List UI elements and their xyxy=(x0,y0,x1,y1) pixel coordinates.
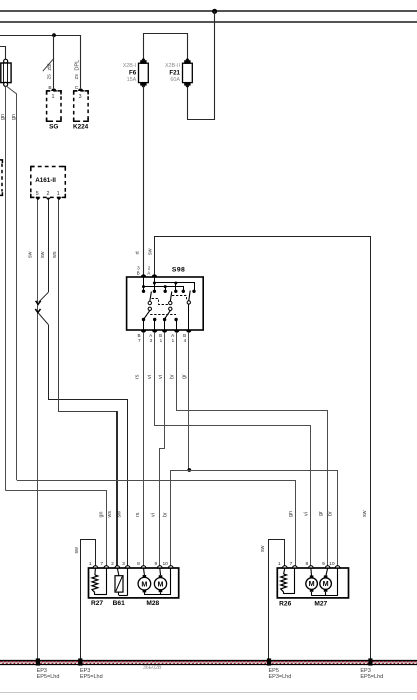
fuse F6 15A xyxy=(123,59,149,88)
svg-text:EP3=Lhd: EP3=Lhd xyxy=(269,674,292,680)
relay S98 box xyxy=(127,277,204,330)
svg-text:sw: sw xyxy=(40,251,46,258)
svg-text:sw: sw xyxy=(74,547,80,554)
svg-text:gn: gn xyxy=(288,511,294,517)
wire gn (left) down to long horizontal xyxy=(5,86,7,490)
svg-text:10: 10 xyxy=(162,561,168,567)
svg-text:vi: vi xyxy=(158,375,164,379)
S98 bottom pin label B/4 xyxy=(183,333,187,343)
label EP3 EP5=Lhd xyxy=(360,668,383,680)
wire sw from R26 pin 1 to ground rail xyxy=(269,540,285,661)
svg-text:rs: rs xyxy=(135,512,141,517)
pin numbers R27/B61/M28 box xyxy=(89,561,168,567)
svg-text:M27: M27 xyxy=(314,601,327,608)
svg-text:br: br xyxy=(170,374,176,379)
svg-text:15A: 15A xyxy=(127,77,137,83)
wire sw from relay S98 pin 2/A up and right to ground rail xyxy=(155,237,371,661)
svg-text:1: 1 xyxy=(278,561,281,567)
S98 fixed contacts (top row) xyxy=(142,290,196,293)
A161-II pin 1 terminal xyxy=(56,198,61,201)
svg-text:B: B xyxy=(48,85,51,91)
svg-text:4: 4 xyxy=(184,338,187,343)
ground connection EP3/EP5 (R27) xyxy=(78,658,82,665)
wire br from S98 A1 to R26 pin 9 xyxy=(177,333,328,566)
sensor B61 xyxy=(115,568,128,596)
svg-text:ws: ws xyxy=(107,511,113,518)
svg-text:gn: gn xyxy=(11,114,17,120)
control unit A161-II (dashed box) xyxy=(31,167,66,198)
A161-II pin 5 terminal xyxy=(35,198,40,201)
ground connection EP3/EP5 (S98) xyxy=(368,658,372,665)
junction node on br wire xyxy=(187,468,191,472)
wire gn (left) to R27 pin 7 xyxy=(6,491,107,567)
A161-II pin 2 terminal xyxy=(46,198,51,201)
S98 bottom pin label B/1 xyxy=(159,333,163,343)
S98 mechanical linkage (dashed) xyxy=(150,296,186,315)
S98 switch arm 3 xyxy=(187,291,190,330)
svg-text:F6: F6 xyxy=(129,69,137,76)
svg-text:1: 1 xyxy=(89,561,92,567)
S98 switch arm 2 xyxy=(165,292,172,319)
svg-text:K224: K224 xyxy=(73,124,89,131)
svg-text:EP5=Lhd: EP5=Lhd xyxy=(80,674,103,680)
junction node on that wire xyxy=(52,33,56,37)
svg-text:9: 9 xyxy=(322,561,325,567)
motor M27 (twin) xyxy=(306,568,338,596)
ground connection EP5/EP3 (R26) xyxy=(267,658,271,665)
svg-text:br: br xyxy=(328,511,334,516)
svg-text:gr: gr xyxy=(318,511,324,516)
svg-text:9: 9 xyxy=(154,561,157,567)
svg-text:3: 3 xyxy=(122,561,125,567)
motor M28 (twin) xyxy=(138,568,171,595)
svg-text:M28: M28 xyxy=(146,600,159,607)
svg-text:M: M xyxy=(323,579,329,588)
svg-text:sw: sw xyxy=(28,251,34,258)
svg-text:zs: zs xyxy=(46,74,52,80)
fuse F21 60A xyxy=(165,59,192,88)
label EP5 EP3=Lhd xyxy=(269,668,292,680)
svg-text:X2B-II: X2B-II xyxy=(165,63,180,69)
label EP3 EP5=Lhd xyxy=(37,668,60,680)
svg-text:gr: gr xyxy=(182,374,188,379)
svg-text:M: M xyxy=(158,579,164,588)
ground connection EP3/EP5 (A161-II) xyxy=(36,658,40,665)
relay S98 bottom pin domes xyxy=(141,330,192,333)
wire gn branch diagonal xyxy=(6,86,16,480)
ground rail EP (hatched) xyxy=(0,660,417,665)
wire from bus to F21 bottom xyxy=(188,11,215,119)
svg-text:M: M xyxy=(141,579,147,588)
pin numbers R26/M27 box xyxy=(278,561,335,567)
S98 internal bus B xyxy=(142,285,184,291)
label EP3 EP5=Lhd xyxy=(80,668,103,680)
svg-text:10: 10 xyxy=(329,561,335,567)
svg-text:3: 3 xyxy=(79,94,82,100)
relay S98 top pin domes xyxy=(141,274,157,277)
svg-text:EP3: EP3 xyxy=(360,668,370,674)
svg-text:zs: zs xyxy=(74,74,80,80)
svg-text:sw: sw xyxy=(362,510,368,517)
pin domes R26/M27 box xyxy=(283,566,340,568)
svg-text:1: 1 xyxy=(57,191,60,197)
page divider line xyxy=(0,692,417,694)
wire sw from A161-II pin 2 with splice arrows to R27 pin 3 xyxy=(35,200,127,566)
svg-text:2: 2 xyxy=(111,561,114,567)
wire label zbl (struck through) xyxy=(43,58,54,71)
resistor R27 xyxy=(92,568,107,595)
svg-text:M: M xyxy=(309,579,315,588)
svg-text:5: 5 xyxy=(36,191,39,197)
svg-text:EP5=Lhd: EP5=Lhd xyxy=(360,674,383,680)
wire ws from A161-II pin 1 to R27 pin 2 xyxy=(59,200,118,566)
svg-text:gn: gn xyxy=(0,114,6,120)
S98 internal bus A xyxy=(153,282,195,292)
svg-text:8: 8 xyxy=(305,561,308,567)
connector K224 (dashed box, pin 3) xyxy=(74,91,88,121)
svg-text:gn: gn xyxy=(99,512,105,518)
wire sw from R27 pin 1 to ground rail xyxy=(81,540,96,661)
power bus line 1 (top) xyxy=(0,10,417,12)
svg-text:vi: vi xyxy=(151,513,157,517)
blower assembly box (R27 B61 M28) xyxy=(89,568,179,598)
wire rs from S98 B7 to R27 pin 8 xyxy=(143,333,145,566)
wire from left edge to connectors SG and K224 xyxy=(0,36,81,89)
S98 bottom pin label A/1 xyxy=(171,333,175,343)
svg-text:1: 1 xyxy=(172,338,175,343)
svg-text:F21: F21 xyxy=(169,69,180,76)
wire gn (second) to R26 pin 7 xyxy=(17,481,296,567)
svg-text:1: 1 xyxy=(160,338,163,343)
svg-text:60A: 60A xyxy=(170,77,180,83)
wire sw from A161-II pin 5 to ground rail xyxy=(37,200,39,660)
svg-text:EP5=Lhd: EP5=Lhd xyxy=(37,674,60,680)
wire from left edge into inline fuse xyxy=(0,47,6,60)
svg-text:br: br xyxy=(162,512,168,517)
svg-text:R27: R27 xyxy=(91,600,103,607)
svg-text:EP3: EP3 xyxy=(37,668,47,674)
S98 bottom pin label B/7 xyxy=(138,333,142,343)
wire F21 top to F6 top xyxy=(144,34,188,61)
S98 internal feed wires xyxy=(144,277,155,291)
svg-text:DPL: DPL xyxy=(75,60,81,71)
svg-text:B: B xyxy=(137,270,140,275)
node junction on bus line 1 xyxy=(212,9,217,14)
svg-text:vi: vi xyxy=(147,375,153,379)
resistor R26 xyxy=(281,568,295,594)
svg-text:S98: S98 xyxy=(172,267,185,274)
S98 switch arm 1 xyxy=(144,292,151,319)
svg-text:3: 3 xyxy=(150,338,153,343)
S98 bottom pin label A/3 xyxy=(149,333,153,343)
svg-text:EP5: EP5 xyxy=(269,668,279,674)
connector K224 pin dome xyxy=(78,88,83,91)
svg-text:7: 7 xyxy=(138,338,141,343)
svg-text:EP3: EP3 xyxy=(80,668,90,674)
relay S98 pin label 3/B xyxy=(137,266,141,276)
wire br to R27 pin 10 and R26 pin 10 xyxy=(171,471,338,567)
pin domes R27/B61/M28 box xyxy=(93,566,173,568)
svg-text:7: 7 xyxy=(100,561,103,567)
wire gr from S98 B4 to junction xyxy=(188,333,190,470)
svg-text:sw: sw xyxy=(147,248,153,255)
svg-text:A161-II: A161-II xyxy=(35,177,56,184)
blower assembly box (R26 M27) xyxy=(277,568,348,598)
power bus line 2 xyxy=(0,21,417,23)
dashed box fragment at left edge (A161-I) xyxy=(0,160,2,196)
svg-text:8: 8 xyxy=(137,561,140,567)
connector SG (dashed box, pin 1) xyxy=(47,91,61,121)
svg-text:SG: SG xyxy=(49,124,58,131)
svg-text:X2B-I: X2B-I xyxy=(123,63,136,69)
svg-text:ws: ws xyxy=(52,251,58,258)
svg-text:B61: B61 xyxy=(113,600,125,607)
wire vi from S98 A3 to R26 pin 8 xyxy=(155,333,311,566)
relay S98 pin label 2/A xyxy=(147,266,151,276)
svg-text:36E02B: 36E02B xyxy=(143,665,162,671)
svg-text:zbl: zbl xyxy=(47,63,53,70)
wire rt from fuse F6 to relay S98 pin 3/B xyxy=(143,86,145,277)
svg-text:7: 7 xyxy=(290,561,293,567)
svg-text:R26: R26 xyxy=(279,601,291,608)
svg-text:2: 2 xyxy=(46,191,49,197)
inline fuse/suppressor element at left edge xyxy=(1,59,11,86)
svg-text:1: 1 xyxy=(52,94,55,100)
connector SG pin dome xyxy=(51,88,56,91)
svg-text:vi: vi xyxy=(303,512,309,516)
wire down to SG pin B xyxy=(53,35,55,88)
S98 bottom contacts xyxy=(142,318,178,330)
svg-text:rs: rs xyxy=(134,374,140,379)
svg-text:rt: rt xyxy=(135,251,141,255)
wire vi from S98 B1 to R27 pin 9 xyxy=(160,333,165,566)
svg-text:sw: sw xyxy=(260,545,266,552)
